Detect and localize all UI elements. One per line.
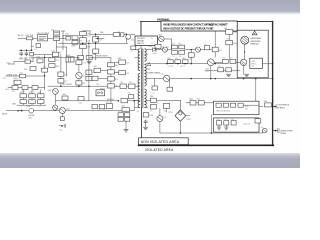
svg-text:R54: R54: [219, 50, 222, 52]
svg-text:C55 25V: C55 25V: [168, 66, 175, 68]
wire ac line 2: [19, 49, 32, 51]
wire d54 down: [228, 45, 230, 60]
isolated area bottom border line: [139, 144, 274, 146]
capacitor C61 in box1: [223, 103, 228, 107]
power transformer T01 primary winding: [138, 49, 140, 108]
capacitor C26: [86, 76, 92, 80]
resistor R46: [119, 70, 126, 74]
svg-text:NOT IN CABINET: NOT IN CABINET: [209, 22, 228, 26]
wire sec lower tap: [148, 99, 150, 101]
svg-text:R56: R56: [222, 58, 225, 60]
resistor R16: [42, 68, 48, 72]
svg-text:3.3u: 3.3u: [234, 31, 237, 33]
wire box1 row: [243, 104, 259, 106]
capacitor C64 in box2: [224, 121, 229, 125]
capacitor C58 below bus: [152, 86, 157, 90]
ground below transformer: [145, 124, 147, 127]
svg-text:R55: R55: [182, 58, 185, 60]
svg-text:R61: R61: [150, 111, 153, 113]
svg-text:X2: X2: [60, 54, 62, 56]
wire stub left a: [8, 63, 14, 65]
sec rail v: [214, 31, 216, 57]
svg-text:SB340: SB340: [152, 53, 157, 55]
wire tap down to lower bus: [125, 34, 127, 43]
svg-text:PC01: PC01: [13, 78, 17, 80]
svg-text:R37: R37: [92, 111, 95, 113]
transistor Q06: [53, 105, 58, 110]
svg-text:HIGH VOLTAGE DC PRESENT THRUOU: HIGH VOLTAGE DC PRESENT THRUOUT UNIT: [163, 26, 214, 30]
svg-text:C56: C56: [175, 58, 178, 60]
diode D51: [153, 48, 156, 52]
junction dots ac: [20, 50, 22, 52]
resistor R10: [120, 33, 124, 36]
svg-text:R18: R18: [12, 91, 15, 93]
thermistor TH02: [72, 40, 78, 44]
svg-text:R64: R64: [197, 99, 200, 101]
svg-text:R31: R31: [62, 94, 65, 96]
resistor R42: [107, 70, 114, 74]
wire c41: [101, 69, 108, 71]
svg-text:R17: R17: [20, 72, 23, 74]
resistor R52 grid b: [179, 45, 185, 49]
diode D54: [226, 40, 233, 44]
resistor R67 in box2: [255, 119, 261, 123]
wire q55 up: [159, 108, 161, 115]
svg-text:R52: R52: [179, 43, 182, 45]
svg-text:SUBWOOFER: SUBWOOFER: [280, 130, 293, 132]
svg-text:C24: C24: [82, 62, 85, 64]
svg-text:R57: R57: [230, 58, 233, 60]
resistor R07: [78, 56, 84, 60]
capacitor C62 in box1: [230, 103, 235, 107]
warning triangle: [252, 31, 257, 35]
svg-text:C60 C61 C62 470u: C60 C61 C62 470u: [216, 110, 230, 112]
transistor Q52: [207, 59, 214, 66]
svg-text:R25: R25: [56, 66, 59, 68]
wire r60 out: [156, 99, 172, 101]
wire right r41: [114, 62, 118, 64]
wire L02 right branch: [57, 46, 67, 48]
rail mid3: [88, 43, 90, 86]
resistor R31: [62, 96, 68, 100]
resistor R43: [107, 77, 114, 81]
varistor RV01: [30, 52, 34, 56]
capacitor C07: [80, 45, 87, 49]
svg-text:R13: R13: [128, 93, 131, 95]
ground box2 b: [225, 125, 227, 127]
svg-text:R27: R27: [64, 81, 67, 83]
svg-text:IC51: IC51: [251, 61, 255, 63]
resistor R39 row: [99, 104, 104, 108]
svg-text:C63: C63: [217, 119, 220, 121]
svg-text:R24: R24: [38, 92, 41, 94]
resistor R56: [222, 59, 228, 63]
transistor Q04: [59, 108, 65, 114]
ground primary: [87, 61, 91, 63]
svg-text:R58: R58: [218, 66, 221, 68]
warning note box: [161, 21, 237, 31]
transformer core: [140, 49, 142, 108]
vcc rail: [44, 55, 46, 90]
resistor R30: [61, 114, 63, 117]
resistor R45: [119, 60, 126, 64]
resistor R19: [22, 86, 28, 90]
wire c42: [98, 77, 107, 79]
wire main relay top: [45, 57, 61, 59]
resistor R08: [86, 56, 92, 60]
svg-text:R44: R44: [115, 86, 118, 88]
svg-text:C44: C44: [136, 111, 139, 113]
svg-text:R45: R45: [118, 58, 121, 60]
svg-text:C31: C31: [78, 103, 81, 105]
transistor Q53: [240, 59, 246, 65]
svg-text:C41: C41: [93, 66, 96, 68]
sub board box1: [213, 101, 259, 115]
capacitor C42: [92, 76, 98, 80]
svg-text:C04: C04: [34, 49, 37, 51]
ac inlet wire right: [65, 110, 122, 112]
svg-text:C16: C16: [32, 91, 35, 93]
svg-text:D01: D01: [65, 34, 68, 36]
svg-text:L52: L52: [161, 74, 164, 76]
svg-text:R26: R26: [64, 74, 67, 76]
protection circuit box outline: [237, 30, 268, 78]
svg-text:Q05: Q05: [83, 76, 86, 78]
svg-text:TH01: TH01: [71, 45, 75, 47]
wire box to border: [268, 63, 272, 65]
diode D53: [195, 47, 200, 52]
isolation boundary top line right of warning box: [237, 21, 272, 23]
svg-text:D54: D54: [233, 43, 236, 45]
svg-text:GND CS: GND CS: [137, 43, 144, 45]
resistor R59 row2: [226, 68, 232, 72]
resistor R60: [150, 98, 156, 102]
svg-text:NON ISOLATED AREA: NON ISOLATED AREA: [141, 140, 180, 144]
heatsink transistor Q51: [241, 36, 249, 44]
svg-text:AMP ASSY: AMP ASSY: [276, 106, 286, 109]
resistor R26: [58, 72, 64, 76]
svg-text:R36: R36: [125, 111, 128, 113]
svg-text:D60: D60: [261, 127, 264, 129]
resistor R63: [190, 101, 196, 105]
wire diamond down: [179, 121, 181, 133]
svg-text:DRIVE: DRIVE: [280, 133, 286, 135]
svg-text:R53: R53: [179, 56, 182, 58]
wire diamond up: [179, 101, 181, 110]
svg-text:C07: C07: [87, 47, 90, 49]
svg-text:C06: C06: [87, 41, 90, 43]
svg-text:C19: C19: [38, 106, 41, 108]
svg-text:TO SUB PWR B: TO SUB PWR B: [276, 105, 290, 107]
wire sec top2: [156, 49, 162, 51]
capacitor C02: [20, 52, 23, 56]
wire to L02: [34, 54, 53, 56]
wire l51 to box: [233, 31, 237, 33]
wire q53 down: [243, 66, 245, 75]
snubber grid C23: [125, 117, 130, 121]
svg-text:R62: R62: [163, 111, 166, 113]
ac inlet wire left: [6, 110, 29, 112]
wire sec top4: [185, 49, 196, 51]
capacitor C03: [25, 52, 28, 56]
svg-text:IC52: IC52: [187, 119, 191, 121]
capacitor C25: [86, 70, 92, 74]
wire q03 down: [54, 94, 56, 105]
svg-text:Q55: Q55: [164, 117, 167, 119]
svg-text:ISOLATED AREA: ISOLATED AREA: [145, 148, 174, 152]
svg-text:MOUNTED: MOUNTED: [251, 41, 262, 43]
resistor R61: [150, 104, 156, 109]
wire ic to transformer: [140, 46, 142, 49]
bulk rail left: [82, 34, 84, 60]
svg-text:JW02: JW02: [5, 89, 9, 91]
capacitor C20 row: [106, 104, 112, 109]
resistor R64: [198, 101, 204, 105]
resistor R66: [265, 103, 272, 107]
svg-text:C18: C18: [29, 106, 32, 108]
wire c58 drop: [154, 79, 156, 86]
capacitor C21: [122, 108, 129, 112]
capacitor C45 symbol: [144, 120, 147, 124]
capacitor C19: [38, 100, 44, 104]
photo coupler PC01: [14, 80, 21, 84]
capacitor C31: [78, 97, 84, 101]
snubber grid C22: [118, 117, 123, 121]
ac inlet wire mid: [34, 110, 60, 112]
capacitor C59 below bus: [167, 87, 172, 91]
wire box1 to box2: [211, 115, 213, 133]
svg-text:C51: C51: [204, 44, 207, 46]
resistor R50: [121, 98, 128, 102]
power transformer T01 secondary winding: [145, 49, 147, 108]
transistor Q03a: [76, 72, 82, 78]
isolation boundary below transformer: [141, 108, 143, 138]
svg-text:C20: C20: [106, 102, 109, 104]
wire q55 down: [159, 122, 161, 133]
resistor R28: [76, 81, 82, 85]
transistor Q55: [157, 116, 163, 122]
capacitor C17 grid: [20, 100, 26, 104]
wire feedback row: [55, 100, 78, 102]
capacitor C08: [93, 37, 99, 42]
capacitor C53 grid c: [172, 51, 178, 55]
svg-text:PC51: PC51: [169, 112, 173, 114]
secondary return bus: [148, 78, 273, 80]
svg-text:R48: R48: [129, 82, 132, 84]
svg-text:Q04: Q04: [66, 108, 69, 110]
capacitor C54: [188, 53, 194, 57]
capacitor C05: [80, 32, 87, 36]
wire rail drop: [110, 101, 112, 103]
shunt regulator diamond: [175, 110, 186, 121]
rail mid4: [110, 58, 112, 101]
svg-text:AVOID PROLONGED SKIN CONTACT W: AVOID PROLONGED SKIN CONTACT WITH (1): [163, 22, 213, 26]
svg-text:R22: R22: [20, 92, 23, 94]
zener D02: [126, 34, 131, 39]
capacitor C12 below pwm: [131, 46, 136, 50]
capacitor C60 in box1: [216, 103, 221, 107]
capacitor C57 row: [182, 60, 188, 64]
HV bus lower: [59, 42, 128, 44]
capacitor C51 top: [204, 46, 209, 50]
resistor R44: [107, 84, 114, 88]
wire sec top1: [148, 49, 153, 51]
wire diamond right: [186, 115, 190, 117]
resistor R58 row2: [218, 68, 224, 72]
wire relay top: [89, 57, 111, 59]
resistor R41 column: [107, 63, 114, 67]
capacitor C06: [80, 38, 87, 44]
svg-text:R46: R46: [126, 73, 129, 75]
svg-text:C55: C55: [167, 58, 170, 60]
resistor R23: [29, 94, 35, 98]
wire out row1: [186, 102, 190, 104]
capacitor C15: [30, 67, 36, 71]
svg-text:C21: C21: [121, 105, 124, 107]
wire row control mid: [10, 87, 12, 89]
capacitor C18: [29, 100, 35, 104]
wire c54 drop: [190, 50, 192, 53]
transformer taps left: [135, 49, 139, 51]
wire fb to transformer: [128, 100, 135, 102]
capacitor C55 row: [168, 60, 174, 64]
svg-text:AC IN: AC IN: [18, 34, 24, 37]
wire ic51 out: [262, 63, 268, 65]
svg-text:C09: C09: [92, 54, 95, 56]
svg-text:R35: R35: [118, 111, 121, 113]
ground g51: [226, 74, 230, 76]
wire q52 up: [210, 66, 212, 79]
capacitor C44: [143, 113, 149, 117]
capacitor C56 row: [175, 60, 181, 64]
svg-text:POWER TRANS: POWER TRANS: [147, 72, 161, 75]
wire ac line 1: [18, 37, 27, 39]
capacitor C52 grid a: [172, 45, 178, 49]
capacitor C09: [93, 49, 99, 53]
capacitor C24: [76, 60, 82, 64]
wire bottom grid: [17, 104, 46, 106]
diode D52: [162, 47, 167, 52]
ground box2 a: [218, 125, 220, 127]
svg-text:R21: R21: [56, 60, 59, 62]
svg-text:AC IN: AC IN: [2, 112, 8, 115]
wire filter out: [60, 37, 66, 39]
svg-text:R16: R16: [43, 67, 46, 69]
svg-text:R14: R14: [3, 78, 6, 80]
svg-text:R41: R41: [115, 65, 118, 67]
resistor R13 left of transformer: [129, 95, 134, 99]
wire right r42: [114, 72, 118, 74]
wire row2: [205, 70, 218, 72]
svg-text:R23: R23: [29, 92, 32, 94]
capacitor C63 in box2: [217, 121, 222, 125]
svg-text:C30: C30: [59, 129, 62, 131]
svg-text:C08: C08: [99, 40, 102, 42]
discharge rod element: [62, 31, 64, 50]
wire L01 to L02: [56, 40, 58, 52]
capacitor C10: [113, 33, 119, 37]
svg-text:D11 1SS133: D11 1SS133: [62, 84, 72, 86]
wire d60 drop: [262, 131, 264, 133]
svg-text:W6554A: W6554A: [137, 40, 144, 43]
capacitor C30 symbol: [59, 124, 65, 127]
svg-text:R66: R66: [264, 101, 267, 103]
svg-text:D02: D02: [131, 40, 134, 42]
wire vertical junction: [31, 40, 33, 50]
svg-text:R63: R63: [189, 99, 192, 101]
svg-text:RELAY DRIVE: RELAY DRIVE: [96, 55, 108, 58]
wire sec top3: [168, 49, 172, 51]
snubber grid R35: [118, 113, 123, 117]
sec mid bus: [148, 63, 222, 65]
resistor R24: [38, 94, 44, 98]
top chain wire: [96, 33, 113, 35]
capacitor C41: [94, 68, 101, 72]
cap symbol out2: [278, 129, 279, 133]
svg-text:C54: C54: [188, 59, 191, 61]
grid rails: [22, 90, 24, 94]
resistor R17: [20, 74, 26, 78]
bulk rail right: [95, 34, 97, 60]
svg-text:C15: C15: [24, 69, 27, 71]
svg-text:C44: C44: [150, 115, 153, 117]
resistor R27: [58, 79, 64, 83]
wire bottom return: [160, 132, 263, 134]
wire snubber down: [125, 121, 127, 129]
svg-text:2200u 16V: 2200u 16V: [243, 123, 251, 125]
resistor R47: [120, 84, 127, 88]
svg-text:B649: B649: [206, 71, 210, 73]
thermistor TH01: [72, 36, 78, 40]
svg-text:COIL: COIL: [28, 118, 32, 120]
wire q51 legs: [244, 44, 246, 59]
resistor R18: [12, 86, 18, 90]
snubber box below Q02: [155, 44, 161, 48]
svg-text:C53: C53: [172, 56, 175, 58]
resistor R21: [49, 58, 55, 62]
capacitor C14: [37, 59, 43, 63]
transformer warning triangle: [148, 63, 151, 66]
diode D01: [66, 36, 70, 40]
ground g52: [244, 74, 248, 76]
wire stub left b: [8, 87, 10, 89]
svg-text:R09: R09: [100, 32, 103, 34]
wire sec top5: [201, 49, 216, 51]
wire to border out1: [259, 105, 263, 107]
pwm controller IC01: [135, 36, 158, 46]
svg-text:PARTS(1): PARTS(1): [251, 43, 260, 46]
sub board box2: [213, 118, 259, 132]
svg-text:C52: C52: [171, 43, 174, 45]
svg-text:R38: R38: [96, 84, 99, 86]
diode D60: [263, 128, 268, 133]
svg-text:C12: C12: [130, 51, 133, 53]
regulator IC51: [250, 58, 263, 68]
bus mid: [96, 38, 104, 40]
svg-text:D12: D12: [94, 58, 97, 60]
arrow out1: [272, 105, 276, 107]
non isolated area label box: [139, 138, 189, 145]
wire c55 drops: [169, 62, 171, 64]
svg-text:C64: C64: [224, 119, 227, 121]
ground snubber: [124, 130, 128, 132]
svg-text:R47: R47: [120, 82, 123, 84]
resistor R25: [49, 64, 55, 68]
wire bus to box1: [255, 79, 257, 102]
svg-text:D03: D03: [59, 52, 62, 54]
wire q52 row: [214, 61, 222, 63]
svg-text:Q03: Q03: [48, 90, 51, 92]
